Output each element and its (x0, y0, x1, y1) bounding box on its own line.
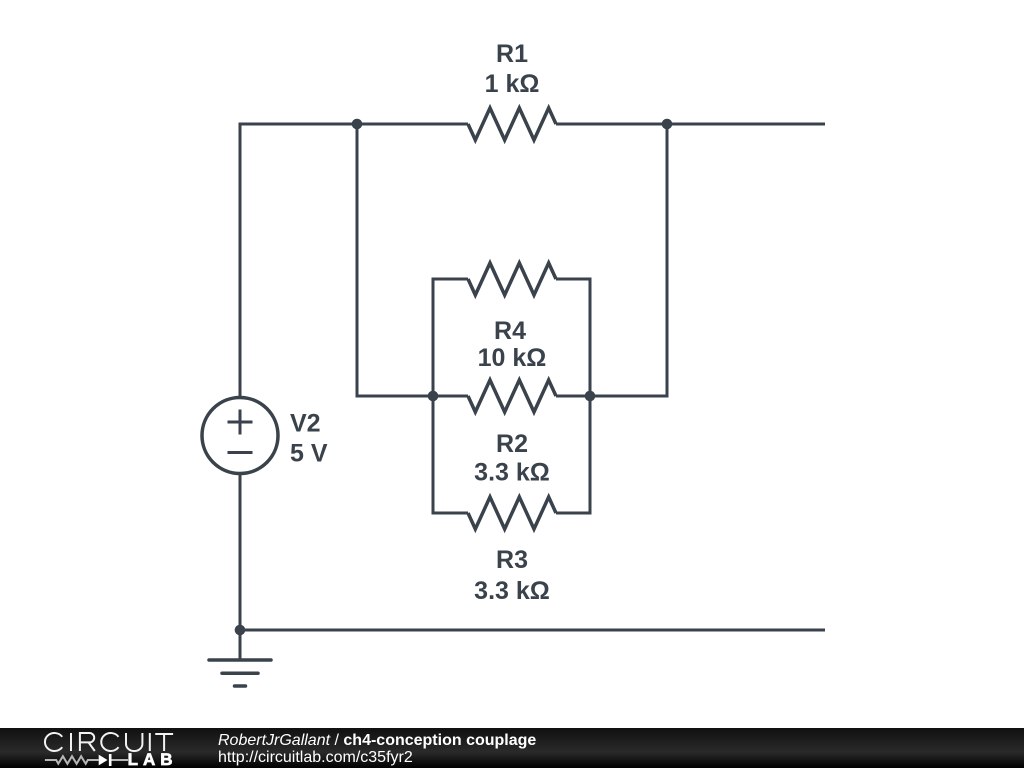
svg-text:R3: R3 (496, 546, 528, 574)
node C middle rail left junction (428, 391, 439, 402)
CircuitLab logo (0, 728, 220, 768)
wire branch vertical at x=357 (356, 124, 359, 398)
ground (209, 660, 271, 686)
node B top-right junction (662, 119, 673, 130)
node E ground junction (235, 625, 246, 636)
svg-text:R2: R2 (496, 430, 528, 458)
logo resistor squiggle (45, 756, 99, 764)
svg-text:3.3 kΩ: 3.3 kΩ (474, 459, 550, 487)
wire left vertical from top rail to V2 (239, 123, 242, 400)
logo diode cathode bar (109, 754, 112, 766)
svg-text:10 kΩ: 10 kΩ (478, 344, 547, 372)
wire V2 bottom to ground node (239, 474, 242, 661)
logo letter R (80, 733, 95, 751)
svg-text:3.3 kΩ: 3.3 kΩ (474, 577, 550, 605)
wire R3 right lead (556, 512, 590, 515)
svg-text:R1: R1 (496, 40, 528, 68)
wire branch horizontal to middle rail (356, 395, 434, 398)
wire R4 right lead (556, 278, 590, 281)
wire top rail right segment (556, 123, 825, 126)
node D middle rail right junction (585, 391, 596, 402)
logo letter I (149, 733, 151, 751)
logo letter C (101, 733, 118, 751)
logo diode lead (111, 759, 128, 761)
svg-text:R4: R4 (494, 317, 526, 345)
logo letter I (70, 733, 72, 751)
wire middle rail left lead (433, 395, 468, 398)
voltage source V2 (202, 398, 278, 474)
logo letter T (155, 734, 173, 751)
wire R3 left lead (433, 512, 468, 515)
wire top rail left segment (239, 123, 469, 126)
node A top-left junction (352, 119, 363, 130)
wire right vertical to top rail (666, 124, 669, 398)
resistor R2 (468, 380, 556, 412)
svg-text:1 kΩ: 1 kΩ (485, 70, 540, 98)
svg-text:LAB: LAB (128, 750, 178, 768)
footer title text (218, 732, 536, 766)
footer bar (0, 728, 1024, 768)
wire bottom rail (240, 629, 825, 632)
wire middle rail to right vertical (590, 395, 669, 398)
resistor R4 (468, 263, 556, 295)
wire parallel bracket left vertical (432, 278, 435, 515)
wire R4 left lead (433, 278, 468, 281)
logo diode triangle (99, 755, 108, 766)
logo letter U (126, 733, 142, 751)
logo letter C (45, 733, 62, 751)
wire parallel bracket right vertical (589, 278, 592, 515)
svg-text:V2: V2 (290, 410, 321, 438)
wire middle rail right lead (556, 395, 590, 398)
svg-text:5 V: 5 V (290, 440, 328, 468)
resistor R3 (468, 497, 556, 529)
resistor R1 (468, 108, 556, 140)
